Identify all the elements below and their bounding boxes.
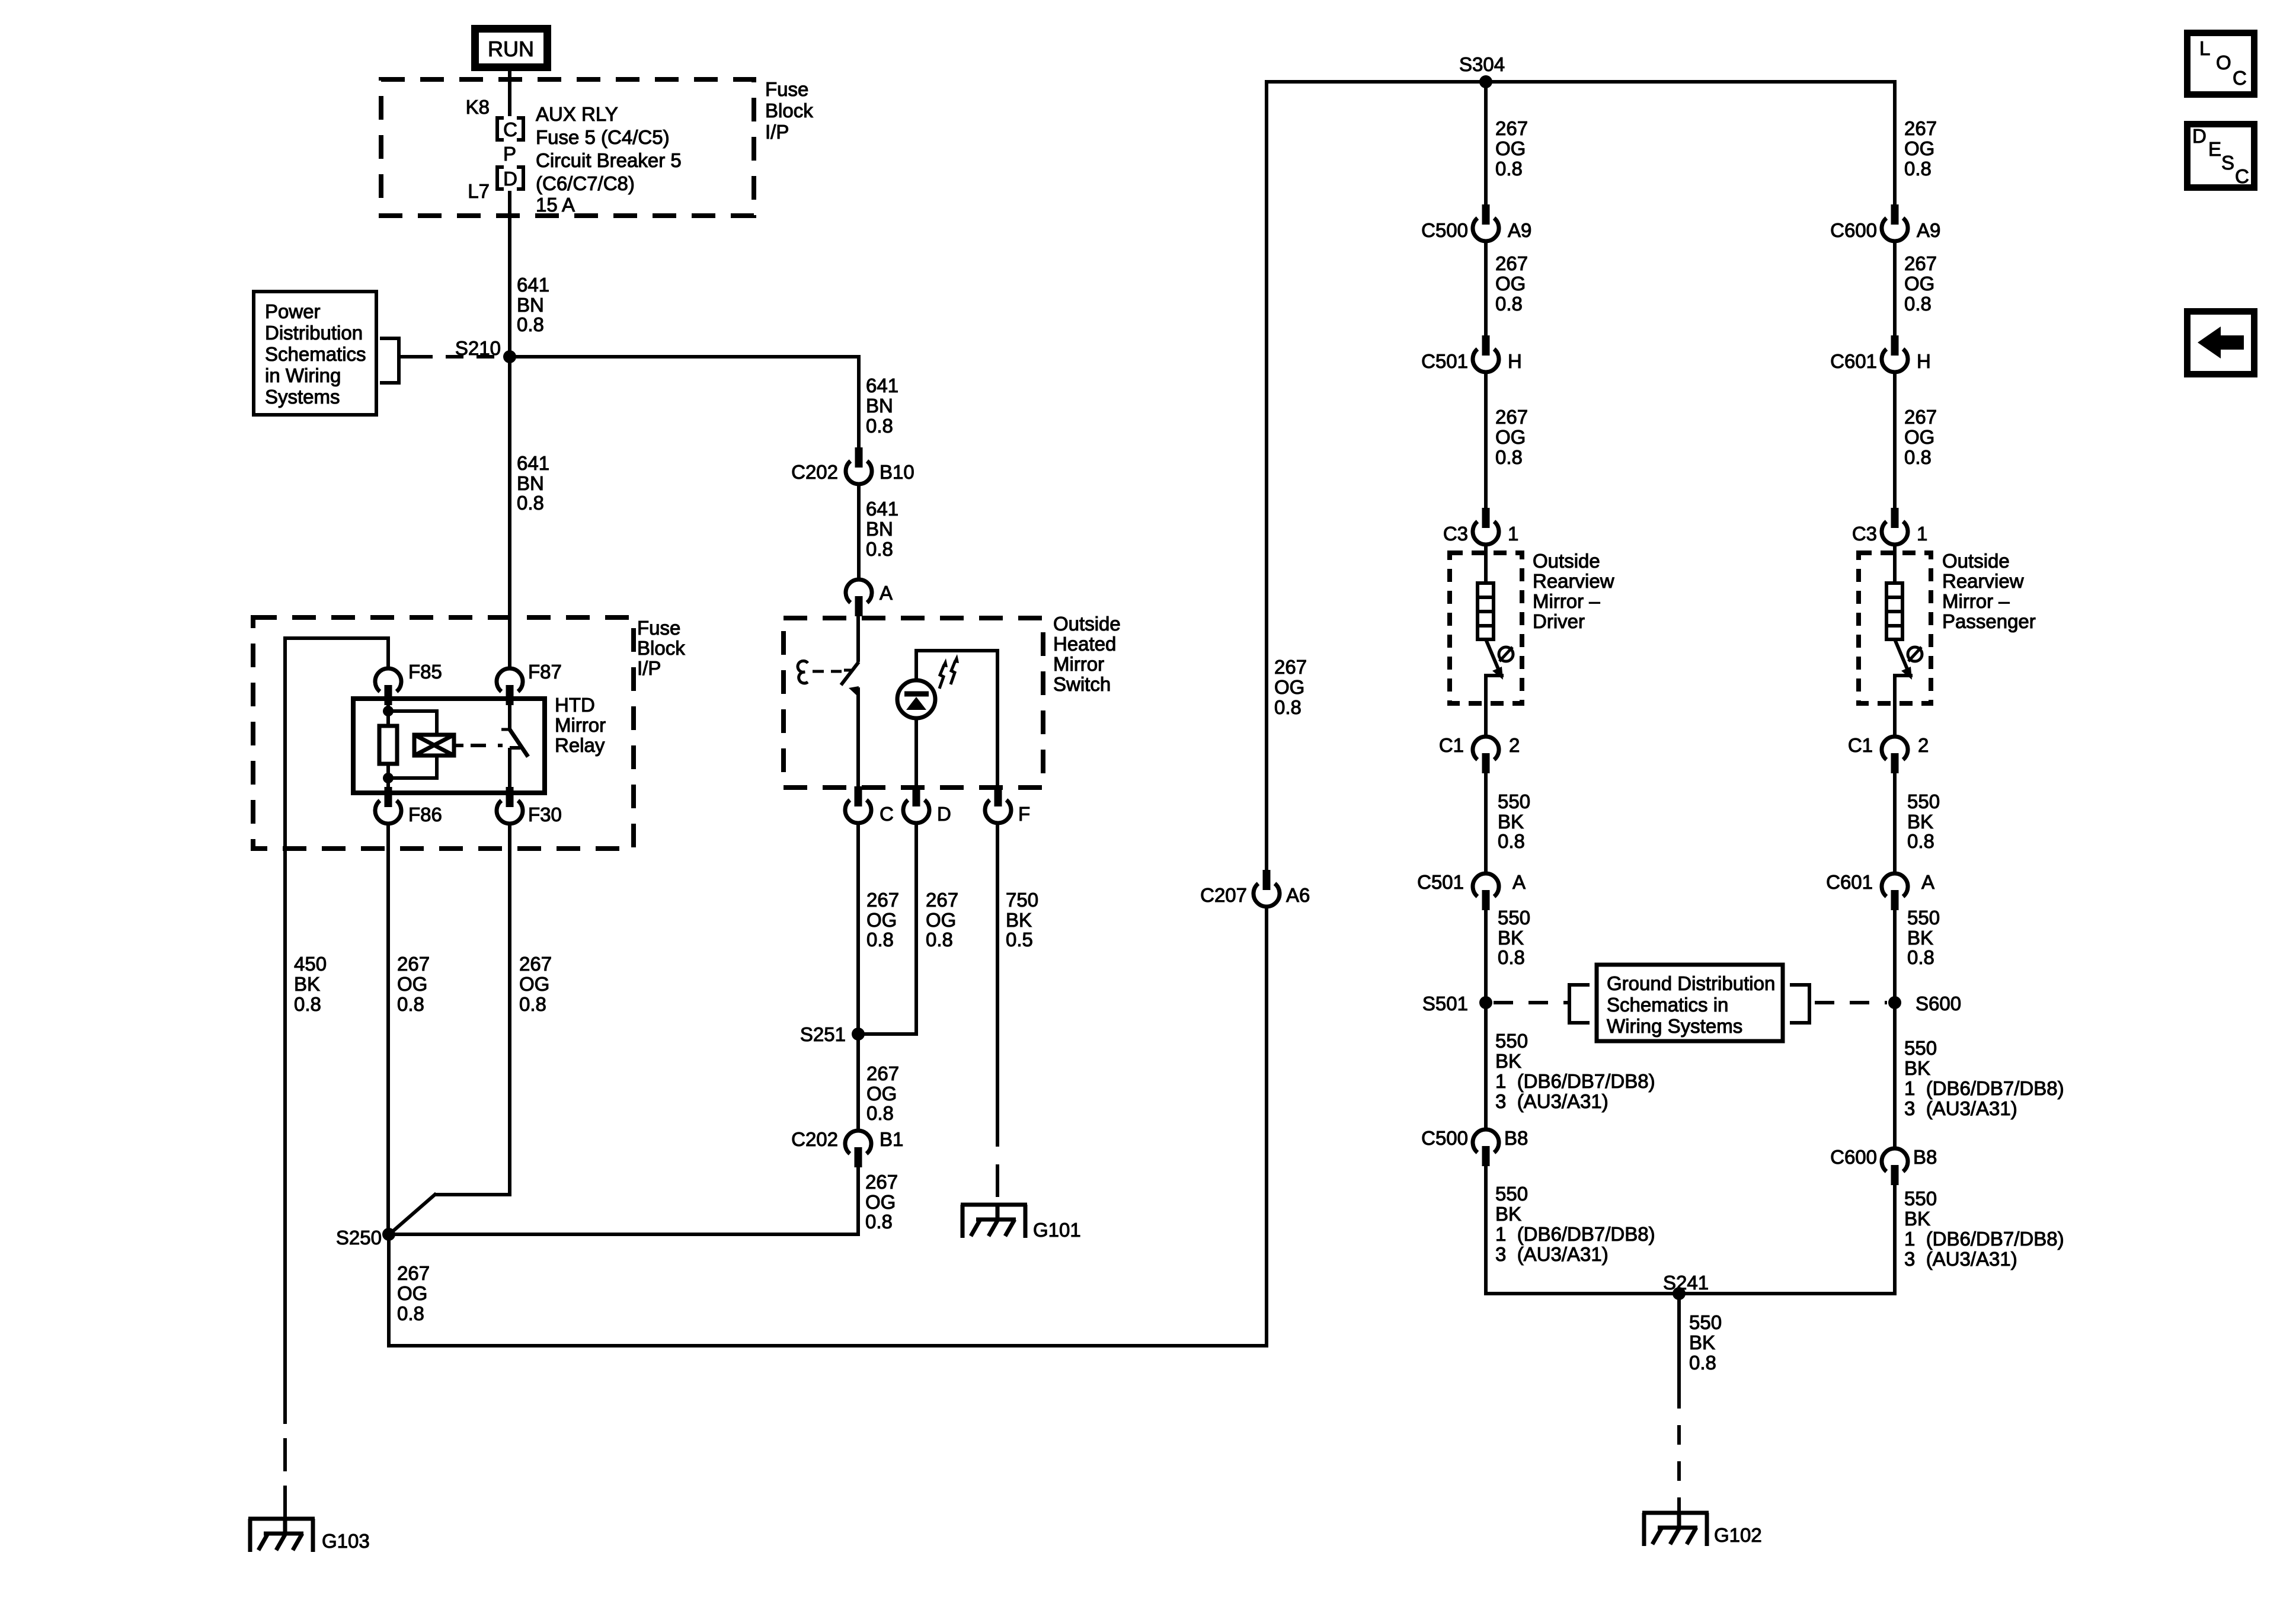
- outside rearview mirror driver dashed box: [1450, 553, 1522, 703]
- connector terminal F85: [375, 668, 401, 705]
- svg-text:AUX RLY: AUX RLY: [536, 103, 618, 125]
- connector C3 1 (driver): [1473, 508, 1499, 545]
- svg-text:OG: OG: [397, 973, 427, 995]
- svg-text:D: D: [2192, 125, 2207, 147]
- svg-text:267: 267: [1495, 252, 1528, 274]
- svg-text:0.8: 0.8: [1495, 158, 1523, 180]
- svg-text:641: 641: [517, 452, 549, 474]
- svg-text:A: A: [1921, 871, 1934, 893]
- svg-text:267: 267: [1495, 117, 1528, 139]
- svg-text:OG: OG: [1904, 137, 1934, 159]
- LOC reference box: [2184, 30, 2257, 98]
- svg-text:Outside: Outside: [1533, 550, 1600, 572]
- svg-text:0.8: 0.8: [517, 313, 544, 335]
- wire S210 branch to C202 B10: [510, 355, 861, 450]
- passenger mirror contact and wire out: [1893, 676, 1913, 735]
- connector C1 2 (passenger): [1882, 737, 1908, 773]
- svg-text:Mirror –: Mirror –: [1942, 590, 2010, 612]
- wire switch contact to terminal C: [856, 687, 860, 794]
- relay actuator dashed line: [454, 744, 503, 747]
- fuse terminal D bracket: [497, 167, 523, 189]
- wire label 550 BK 0.8 (passenger): [1907, 790, 1940, 852]
- svg-text:Rearview: Rearview: [1942, 570, 2024, 592]
- driver mirror thermal symbol circle-slash: [1499, 647, 1513, 661]
- svg-text:OG: OG: [1274, 676, 1304, 698]
- connector C501 A: [1473, 873, 1499, 910]
- svg-text:S241: S241: [1663, 1272, 1709, 1294]
- svg-text:0.8: 0.8: [1495, 446, 1523, 468]
- svg-text:S501: S501: [1422, 993, 1468, 1014]
- wire C600 to C601: [1893, 243, 1897, 337]
- svg-text:C202: C202: [791, 461, 838, 483]
- svg-text:S250: S250: [336, 1227, 382, 1249]
- connector terminal A: [846, 580, 872, 616]
- junction S210: [503, 350, 516, 363]
- connector C207 A6: [1253, 870, 1280, 907]
- outside rearview mirror passenger dashed box: [1859, 553, 1931, 703]
- svg-text:BN: BN: [517, 294, 544, 316]
- wire LED top loop to terminal F: [914, 649, 999, 794]
- connector C600 A9: [1882, 204, 1908, 241]
- svg-text:2: 2: [1918, 734, 1929, 756]
- svg-text:C600: C600: [1830, 219, 1877, 241]
- relay junction dot lower: [383, 773, 394, 783]
- svg-text:550: 550: [1498, 907, 1530, 929]
- svg-text:C3: C3: [1443, 523, 1468, 545]
- LED lightning arrow 2: [951, 654, 959, 684]
- relay label HTD Mirror Relay: [555, 694, 606, 756]
- svg-text:0.8: 0.8: [1498, 830, 1525, 852]
- svg-text:OG: OG: [865, 1191, 896, 1213]
- connector C600 B8: [1882, 1148, 1908, 1185]
- wire label 550 BK 1 3 (passenger lower): [1904, 1188, 2064, 1270]
- connector C601 A labels: [1826, 871, 1934, 893]
- svg-text:Block: Block: [765, 100, 813, 121]
- wire F85 loop up and over to left side: [283, 636, 390, 1391]
- wire label 267 OG 0.8 (passenger top): [1904, 117, 1937, 180]
- wire C601 to C3: [1893, 374, 1897, 509]
- connector C501 A labels: [1417, 871, 1526, 893]
- svg-text:BK: BK: [1904, 1208, 1930, 1230]
- svg-text:641: 641: [517, 274, 549, 296]
- relay switch wire from F87: [508, 703, 511, 729]
- svg-text:Wiring Systems: Wiring Systems: [1607, 1015, 1742, 1037]
- svg-text:P: P: [503, 143, 516, 165]
- svg-text:H: H: [1917, 350, 1931, 372]
- svg-text:B1: B1: [880, 1128, 903, 1150]
- wire label 641 BN 0.8 (above S210): [517, 274, 549, 335]
- svg-text:E: E: [2208, 138, 2221, 160]
- wire S241 horizontal bus: [1484, 1292, 1897, 1295]
- outside heated mirror switch dashed box: [784, 618, 1043, 788]
- wire label 267 OG 0.8 (driver lower): [1495, 406, 1528, 468]
- left arrow reference box: [2184, 308, 2257, 377]
- svg-text:OG: OG: [866, 1083, 897, 1105]
- bracket right of ground distribution box: [1790, 985, 1809, 1023]
- svg-text:C: C: [880, 803, 894, 825]
- svg-text:C500: C500: [1421, 1127, 1468, 1149]
- svg-text:OG: OG: [397, 1282, 427, 1304]
- svg-text:Heated: Heated: [1053, 633, 1116, 655]
- svg-text:Circuit Breaker 5: Circuit Breaker 5: [536, 149, 682, 171]
- svg-text:C1: C1: [1848, 734, 1873, 756]
- junction S251: [852, 1028, 865, 1041]
- svg-text:A9: A9: [1917, 219, 1940, 241]
- wire label 550 BK 0.8 (driver lower): [1498, 907, 1530, 968]
- svg-text:0.8: 0.8: [519, 993, 546, 1015]
- relay junction dot upper: [383, 706, 394, 716]
- svg-text:RUN: RUN: [488, 37, 534, 61]
- svg-text:3 (AU3/A31): 3 (AU3/A31): [1904, 1097, 2017, 1119]
- svg-text:G102: G102: [1714, 1524, 1762, 1546]
- svg-text:1 (DB6/DB7/DB8): 1 (DB6/DB7/DB8): [1495, 1223, 1655, 1245]
- junction S241: [1673, 1287, 1686, 1300]
- svg-text:BK: BK: [1907, 927, 1933, 949]
- wire label 641 BN 0.8 (below S210): [517, 452, 549, 514]
- svg-text:267: 267: [1274, 656, 1307, 678]
- driver mirror blade arrowhead: [1492, 667, 1503, 680]
- connector C601 A: [1882, 873, 1908, 910]
- svg-text:1 (DB6/DB7/DB8): 1 (DB6/DB7/DB8): [1904, 1077, 2064, 1099]
- LED anode triangle: [906, 697, 926, 710]
- svg-text:C600: C600: [1830, 1146, 1877, 1168]
- connector C207 A6 labels: [1200, 884, 1310, 906]
- svg-text:S: S: [2221, 152, 2234, 174]
- svg-text:0.8: 0.8: [1907, 946, 1934, 968]
- svg-text:450: 450: [294, 953, 327, 975]
- svg-text:C501: C501: [1421, 350, 1468, 372]
- svg-text:C500: C500: [1421, 219, 1468, 241]
- mirror passenger label Outside Rearview Mirror Passenger: [1942, 550, 2036, 632]
- svg-text:Mirror: Mirror: [1053, 653, 1104, 675]
- svg-text:OG: OG: [1495, 426, 1526, 448]
- svg-text:Mirror –: Mirror –: [1533, 590, 1600, 612]
- dashed wire S501 to bracket: [1494, 1001, 1568, 1004]
- wire C501 to C3: [1484, 374, 1488, 509]
- junction S501: [1479, 996, 1492, 1009]
- svg-text:C: C: [2233, 67, 2247, 89]
- connector C1 2 labels (driver): [1439, 734, 1520, 756]
- svg-text:2: 2: [1509, 734, 1520, 756]
- passenger mirror thermal symbol circle-slash: [1908, 647, 1922, 661]
- svg-text:B8: B8: [1504, 1127, 1528, 1149]
- svg-text:267: 267: [865, 1171, 898, 1193]
- svg-text:750: 750: [1006, 889, 1038, 911]
- wire label 550 BK 1 3 (passenger): [1904, 1037, 2064, 1119]
- svg-text:267: 267: [866, 889, 899, 911]
- wire C to S251 to C202 B1: [856, 825, 860, 1129]
- wire D down to S251: [858, 825, 918, 1036]
- wire F dashed to ground: [996, 825, 999, 1205]
- connector C202 B1: [845, 1131, 871, 1167]
- wire C600 B8 down to S241 bus: [1893, 1184, 1897, 1295]
- connector terminal F87: [497, 668, 523, 705]
- wire label 267 OG 0.8 (passenger lower): [1904, 406, 1937, 468]
- connector C3 1 labels (passenger): [1852, 523, 1928, 545]
- svg-text:267: 267: [1904, 252, 1937, 274]
- driver mirror contact and wire out: [1484, 676, 1504, 735]
- wire S304 to C500 A9: [1484, 82, 1488, 206]
- relay switch blade: [510, 729, 528, 757]
- svg-text:A6: A6: [1286, 884, 1310, 906]
- svg-text:Systems: Systems: [265, 386, 340, 408]
- svg-text:BK: BK: [1495, 1203, 1521, 1225]
- dashed wire bracket to S210: [399, 355, 503, 359]
- svg-text:D: D: [503, 168, 517, 190]
- svg-text:Distribution: Distribution: [265, 322, 363, 344]
- svg-text:S251: S251: [800, 1023, 846, 1045]
- svg-text:550: 550: [1495, 1030, 1528, 1052]
- wire F85 loop dashed to ground G103: [283, 1391, 287, 1519]
- svg-text:BK: BK: [1006, 909, 1032, 931]
- ground G102: [1642, 1513, 1709, 1546]
- connector C500 B8: [1473, 1129, 1499, 1166]
- svg-text:3 (AU3/A31): 3 (AU3/A31): [1904, 1248, 2017, 1270]
- svg-text:C601: C601: [1830, 350, 1877, 372]
- svg-text:Fuse 5 (C4/C5): Fuse 5 (C4/C5): [536, 126, 670, 148]
- svg-text:G103: G103: [322, 1530, 370, 1552]
- svg-text:HTD: HTD: [555, 694, 595, 716]
- switch contact arrowhead: [849, 686, 859, 696]
- connector C3 1 labels (driver): [1443, 523, 1519, 545]
- passenger mirror heater element: [1886, 583, 1902, 639]
- wire C202 B1 to S250: [389, 1167, 860, 1236]
- svg-text:OG: OG: [866, 909, 897, 931]
- ground G101: [961, 1205, 1027, 1238]
- svg-text:0.8: 0.8: [1689, 1352, 1716, 1374]
- svg-text:BK: BK: [1689, 1331, 1715, 1353]
- wire label 550 BK 0.8 (passenger lower): [1907, 907, 1940, 968]
- switch blade pivot tick: [844, 669, 851, 672]
- LED cathode bar: [904, 692, 929, 697]
- ignition switch RUN box: [471, 25, 551, 71]
- indicator LED circle: [897, 680, 935, 718]
- svg-text:A: A: [880, 582, 893, 604]
- wire label 750 BK 0.5 (F wire): [1006, 889, 1038, 950]
- wire label 267 OG 0.8 (driver top): [1495, 117, 1528, 180]
- fuse terminal C bracket: [497, 118, 523, 140]
- svg-text:S600: S600: [1916, 993, 1961, 1014]
- connector C501 H labels: [1421, 350, 1522, 372]
- wire label 267 OG 0.8 (below S250): [397, 1262, 430, 1324]
- connector terminal C: [845, 786, 871, 823]
- svg-text:0.8: 0.8: [1495, 293, 1523, 315]
- svg-text:0.8: 0.8: [1904, 293, 1932, 315]
- svg-text:550: 550: [1904, 1188, 1937, 1209]
- svg-text:C207: C207: [1200, 884, 1247, 906]
- svg-text:550: 550: [1689, 1311, 1722, 1333]
- Power Distribution Schematics box: [254, 292, 376, 415]
- svg-text:267: 267: [397, 953, 430, 975]
- connector terminal F30: [497, 787, 523, 824]
- dashed wire bracket to S600: [1815, 1001, 1887, 1004]
- relay switch contact tick: [510, 746, 520, 750]
- wire C601 A to S600 to C600 B8: [1893, 909, 1897, 1148]
- svg-text:BK: BK: [1907, 811, 1933, 833]
- svg-text:S304: S304: [1459, 53, 1505, 75]
- svg-text:Outside: Outside: [1053, 613, 1121, 635]
- connector C601 H: [1882, 335, 1908, 372]
- svg-text:267: 267: [866, 1062, 899, 1084]
- fuse block label Fuse Block I/P: [765, 78, 813, 143]
- svg-text:BK: BK: [1498, 927, 1524, 949]
- wire fuse D to S210 to relay F87: [508, 191, 511, 668]
- connector C500 A9 labels: [1421, 219, 1531, 241]
- relay switch pivot tick: [501, 728, 510, 731]
- svg-text:267: 267: [1904, 406, 1937, 428]
- svg-text:0.8: 0.8: [517, 492, 544, 514]
- svg-text:0.8: 0.8: [1907, 830, 1934, 852]
- svg-text:0.8: 0.8: [397, 1302, 424, 1324]
- driver mirror heater element: [1478, 583, 1494, 639]
- connector C202 B1 labels: [791, 1128, 903, 1150]
- svg-text:F: F: [1018, 803, 1030, 825]
- connector C3 1 (passenger): [1882, 508, 1908, 545]
- switch label Outside Heated Mirror Switch: [1053, 613, 1121, 695]
- wire C1 to C601 A (passenger): [1893, 772, 1897, 873]
- connector C500 A9: [1473, 204, 1499, 241]
- svg-text:3 (AU3/A31): 3 (AU3/A31): [1495, 1243, 1609, 1265]
- relay coil box with X: [414, 735, 454, 756]
- svg-text:Passenger: Passenger: [1942, 610, 2036, 632]
- wire S304 corner to C600 A9: [1893, 80, 1897, 206]
- svg-text:0.8: 0.8: [866, 929, 894, 950]
- wire C500 to C501: [1484, 243, 1488, 337]
- svg-text:OG: OG: [1495, 137, 1526, 159]
- ground G103: [248, 1519, 315, 1552]
- connector C500 B8 labels: [1421, 1127, 1528, 1149]
- svg-text:Relay: Relay: [555, 734, 605, 756]
- svg-text:0.8: 0.8: [865, 1211, 893, 1233]
- wire label 450 BK 0.8: [294, 953, 327, 1015]
- svg-text:550: 550: [1907, 790, 1940, 812]
- svg-text:C202: C202: [791, 1128, 838, 1150]
- svg-text:267: 267: [926, 889, 958, 911]
- connector terminal D: [903, 786, 929, 823]
- svg-text:BN: BN: [866, 395, 893, 417]
- svg-text:Outside: Outside: [1942, 550, 2010, 572]
- bracket left of ground distribution box: [1569, 985, 1590, 1023]
- svg-text:0.8: 0.8: [866, 415, 893, 437]
- svg-text:550: 550: [1904, 1037, 1937, 1059]
- fuse block I/P dashed box (top): [381, 79, 754, 216]
- wire label 550 BK 0.8 (below S241): [1689, 1311, 1722, 1374]
- svg-text:BK: BK: [1495, 1050, 1521, 1072]
- fuse block I/P dashed box (relay): [253, 617, 634, 849]
- wire A into switch: [856, 616, 860, 662]
- svg-text:Block: Block: [637, 637, 685, 659]
- svg-text:Driver: Driver: [1533, 610, 1585, 632]
- svg-text:Rearview: Rearview: [1533, 570, 1614, 592]
- svg-text:C: C: [503, 119, 517, 140]
- svg-text:267: 267: [1495, 406, 1528, 428]
- svg-text:641: 641: [866, 498, 898, 520]
- svg-text:550: 550: [1498, 790, 1530, 812]
- svg-text:A9: A9: [1508, 219, 1531, 241]
- wire into passenger mirror: [1893, 546, 1897, 585]
- wire C501 A to S501 to C500 B8: [1484, 909, 1488, 1129]
- svg-text:L: L: [2199, 37, 2210, 59]
- svg-text:OG: OG: [1904, 273, 1934, 295]
- passenger mirror thermal switch blade: [1895, 639, 1909, 673]
- svg-text:I/P: I/P: [765, 121, 789, 143]
- svg-text:C1: C1: [1439, 734, 1464, 756]
- wire label 641 BN 0.8 (above A): [866, 498, 898, 560]
- svg-text:C3: C3: [1852, 523, 1877, 545]
- connector C601 H labels: [1830, 350, 1931, 372]
- wire label 267 OG 0.8 (C wire): [866, 889, 899, 950]
- svg-text:267: 267: [519, 953, 552, 975]
- wire S241 dashed to ground G102: [1677, 1294, 1681, 1513]
- svg-text:D: D: [937, 803, 951, 825]
- svg-text:0.8: 0.8: [397, 993, 424, 1015]
- svg-text:A: A: [1512, 871, 1526, 893]
- svg-text:OG: OG: [1495, 273, 1526, 295]
- svg-text:in Wiring: in Wiring: [265, 364, 341, 386]
- fuse description text AUX RLY: [536, 103, 682, 216]
- svg-text:0.8: 0.8: [866, 1102, 894, 1124]
- svg-text:0.8: 0.8: [1498, 946, 1525, 968]
- connector C202 B10: [846, 447, 872, 484]
- svg-text:O: O: [2216, 52, 2231, 73]
- relay coil branch wire: [388, 699, 439, 793]
- svg-text:BK: BK: [1904, 1057, 1930, 1079]
- svg-text:C601: C601: [1826, 871, 1873, 893]
- relay fuse block label Fuse Block I/P: [637, 617, 685, 679]
- bracket from Power Distribution box: [380, 338, 399, 383]
- svg-text:B10: B10: [880, 461, 914, 483]
- svg-text:F30: F30: [528, 804, 562, 825]
- svg-text:1 (DB6/DB7/DB8): 1 (DB6/DB7/DB8): [1904, 1228, 2064, 1250]
- wire label 267 OG 0.8 (driver mid): [1495, 252, 1528, 315]
- junction S600: [1888, 996, 1901, 1009]
- svg-text:267: 267: [1904, 117, 1937, 139]
- svg-text:H: H: [1508, 350, 1522, 372]
- svg-text:Mirror: Mirror: [555, 714, 606, 736]
- svg-text:0.8: 0.8: [1274, 696, 1302, 718]
- svg-text:BK: BK: [294, 973, 320, 995]
- wire label 267 OG 0.8 (below B1): [865, 1171, 898, 1233]
- svg-text:Fuse: Fuse: [765, 78, 808, 100]
- svg-text:0.8: 0.8: [926, 929, 953, 950]
- svg-text:F85: F85: [408, 661, 442, 683]
- relay switch contact wire to F30: [508, 748, 511, 793]
- junction S304: [1479, 75, 1492, 88]
- wire S304 horizontal bus: [1265, 80, 1897, 84]
- wire C1 to C501 A (driver): [1484, 772, 1488, 873]
- svg-text:F86: F86: [408, 804, 442, 825]
- svg-text:C501: C501: [1417, 871, 1464, 893]
- connector C600 A9 labels: [1830, 219, 1940, 241]
- connector terminal F86: [375, 787, 401, 824]
- svg-text:I/P: I/P: [637, 657, 661, 679]
- wire label 267 OG 0.8 (D wire): [926, 889, 958, 950]
- wire C500 B8 down to S241 bus: [1484, 1165, 1488, 1295]
- connector C1 2 (driver): [1473, 737, 1499, 773]
- wire label 550 BK 0.8 (driver): [1498, 790, 1530, 852]
- svg-text:0.8: 0.8: [1904, 446, 1932, 468]
- junction S250: [382, 1228, 395, 1241]
- wire label 267 OG 0.8 (below S251): [866, 1062, 899, 1124]
- mirror driver label Outside Rearview Mirror Driver: [1533, 550, 1614, 632]
- svg-text:OG: OG: [926, 909, 956, 931]
- svg-text:BN: BN: [517, 472, 544, 494]
- svg-text:Ground Distribution: Ground Distribution: [1607, 972, 1775, 994]
- DESC reference box: [2184, 121, 2257, 191]
- ground distribution schematics box: [1597, 965, 1783, 1041]
- svg-text:(C6/C7/C8): (C6/C7/C8): [536, 172, 635, 194]
- driver mirror thermal switch blade: [1486, 639, 1500, 673]
